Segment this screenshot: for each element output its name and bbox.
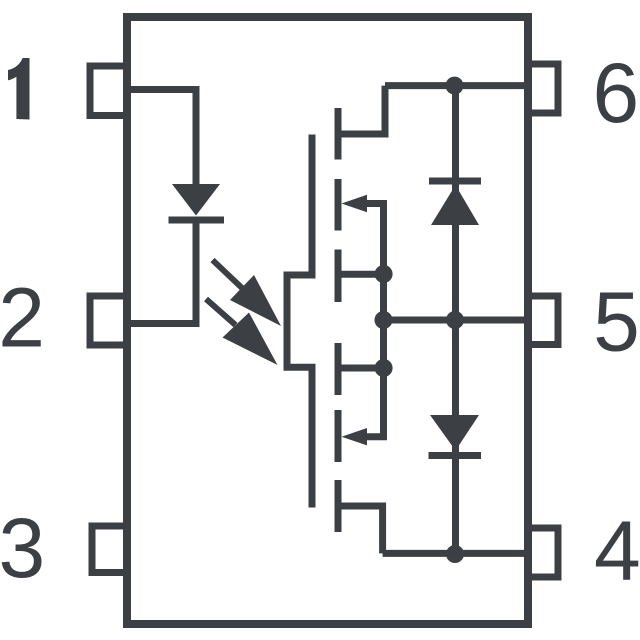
pin 5 tab — [528, 296, 558, 345]
MOSFET Q1 channel drain segment — [335, 108, 342, 160]
MOSFET Q1 source bar — [338, 271, 384, 278]
svg-text:2: 2 — [0, 271, 45, 365]
junction dot node A — [446, 77, 464, 95]
body diode D2 triangle — [431, 185, 479, 225]
svg-text:5: 5 — [593, 275, 640, 369]
MOSFET Q2 drain connection — [338, 506, 383, 553]
MOSFET Q2 channel drain segment — [335, 480, 342, 532]
wire drain Q1 to pin 6 — [385, 82, 528, 89]
light arrow 2 shaft — [206, 299, 236, 325]
junction dot node B — [446, 311, 464, 329]
junction dot Q1 source — [375, 265, 393, 283]
MOSFET Q2 source bar — [338, 365, 384, 372]
svg-text:4: 4 — [594, 504, 640, 598]
MOSFET Q1 channel body segment — [335, 179, 342, 231]
pin 3 tab — [92, 526, 127, 573]
pin 1 tab — [90, 66, 127, 116]
common source vertical wire — [380, 274, 387, 368]
MOSFET Q1 drain connection — [338, 86, 385, 134]
junction dot node C — [446, 545, 464, 563]
pin 6 tab — [528, 64, 558, 113]
LED D1 cathode bar — [169, 217, 225, 224]
wire common source to pin 5 — [384, 317, 529, 324]
MOSFET Q1 channel source segment — [335, 250, 342, 303]
light arrow 1 shaft — [213, 260, 243, 288]
LED D1 triangle — [172, 184, 220, 216]
body diode D2 chain wire — [452, 86, 459, 554]
pin 4 tab — [528, 528, 558, 577]
MOSFET Q1 body arrow wire — [362, 204, 384, 275]
svg-text:6: 6 — [593, 46, 640, 140]
pin 2 tab — [90, 296, 127, 345]
MOSFET Q1 body arrow head — [342, 195, 368, 212]
MOSFET Q2 channel body segment — [335, 410, 342, 462]
gate line with photodiode notch — [287, 135, 312, 508]
MOSFET Q2 body arrow wire — [362, 368, 384, 437]
light arrow 2 head — [223, 313, 278, 366]
pin label 1 — [8, 58, 30, 120]
wire drain Q2 to pin 4 — [383, 550, 528, 557]
wire pin1 to LED anode — [127, 90, 196, 185]
body diode D3 triangle — [430, 415, 479, 451]
junction dot common source — [375, 311, 393, 329]
wire LED cathode to pin2 — [127, 220, 196, 324]
package outline — [127, 17, 528, 624]
junction dot Q2 source — [375, 359, 393, 377]
MOSFET Q2 body arrow head — [342, 428, 368, 445]
MOSFET Q2 channel source segment — [335, 343, 342, 395]
light arrow 1 head — [230, 275, 281, 326]
body diode D3 cathode bar — [429, 452, 482, 459]
body diode D2 cathode bar — [429, 178, 481, 185]
svg-text:3: 3 — [0, 501, 45, 595]
